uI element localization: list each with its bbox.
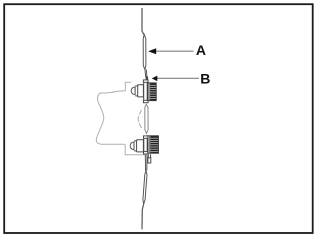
lower clip body [137, 139, 144, 153]
trim panel outline (light gray bracket cross-section) [96, 82, 147, 155]
upper clip ribbed head [148, 83, 156, 101]
panel pillar: upper lens outline [143, 35, 146, 70]
lower clip flange top cap [144, 136, 149, 138]
upper clip flange [144, 80, 148, 102]
lower clip flange [144, 136, 147, 154]
panel pillar: bit above upper clip head [146, 76, 147, 81]
lower clip neck [134, 141, 137, 151]
upper clip C1 [131, 80, 148, 103]
dashed hole outline between clips [138, 110, 141, 128]
lower clip flange bottom cap [144, 152, 149, 154]
panel pillar: segment below lower clip [145, 155, 147, 171]
upper clip flange top cap [143, 80, 148, 82]
leader line A [156, 50, 194, 52]
upper clip neck [135, 86, 138, 96]
panel pillar: top single line [142, 8, 144, 35]
leader line B [157, 77, 200, 79]
lower clip tip cap [130, 142, 134, 150]
lower clip bottom tab [148, 154, 150, 158]
arrowhead B [152, 76, 158, 82]
panel pillar: lower lens outline (tilted) [143, 171, 147, 204]
svg-text:B: B [200, 70, 210, 86]
panel pillar: bottom single line [142, 204, 144, 229]
lower clip ribbed head [148, 136, 159, 153]
upper clip flange bottom cap [143, 100, 148, 102]
upper clip tip cap [131, 87, 135, 95]
arrowhead A [148, 48, 156, 54]
svg-text:A: A [196, 42, 206, 58]
panel pillar: lens between clips [145, 104, 148, 133]
upper clip body [138, 84, 144, 98]
lower clip C2 [130, 136, 148, 154]
panel pillar: segment into upper clip [145, 69, 147, 81]
